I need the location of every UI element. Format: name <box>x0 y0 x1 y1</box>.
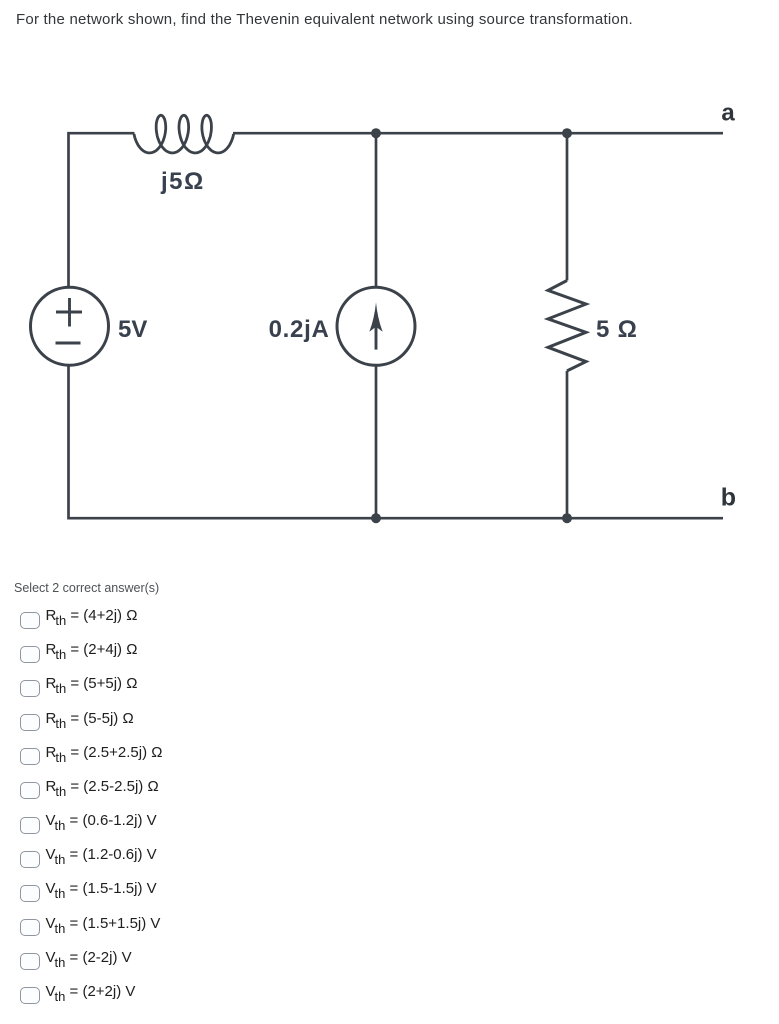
svg-text:j5Ω: j5Ω <box>160 168 205 195</box>
svg-text:5 Ω: 5 Ω <box>596 316 638 343</box>
svg-text:5V: 5V <box>118 316 147 343</box>
svg-text:b: b <box>721 484 736 512</box>
svg-text:0.2jA: 0.2jA <box>269 316 330 343</box>
svg-text:a: a <box>721 100 735 127</box>
